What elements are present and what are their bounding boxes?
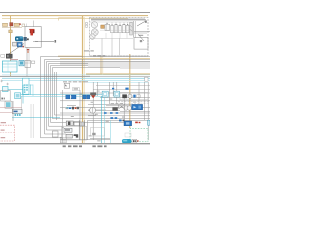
wire tan riser right	[129, 54, 131, 128]
legend text rows	[1, 122, 6, 138]
dashed subsystem boundary	[118, 102, 150, 104]
component teal-border TB1	[102, 91, 108, 97]
bottom-half vertical wires	[63, 82, 149, 140]
component bottom cluster A	[66, 121, 84, 126]
pump blue cylinder P1	[15, 36, 27, 41]
wire tan riser mid	[83, 16, 85, 143]
footer text right	[92, 145, 106, 147]
wire green dashed box	[130, 128, 148, 143]
component C box	[13, 42, 17, 46]
label box L1	[73, 87, 80, 90]
valve blue VB2	[83, 95, 90, 99]
component small blue T2	[19, 60, 24, 65]
text right of block	[139, 35, 144, 36]
wire verticals bottom-center	[79, 120, 87, 140]
wire red left 1	[0, 107, 22, 109]
wire grey band across	[0, 75, 150, 77]
valve hatched column	[130, 23, 133, 36]
pump circle PU3	[90, 34, 95, 39]
node red marks bottom right	[135, 122, 140, 124]
valve triangles bowtie	[119, 105, 125, 109]
text micro labels bottom half	[65, 91, 136, 142]
footer text left	[63, 145, 82, 147]
valve blue big VB4	[132, 104, 143, 109]
box bottom-center enclosure	[62, 126, 87, 140]
valve row V6	[126, 25, 129, 33]
valve assembly top-right VB3	[120, 92, 148, 99]
component band-edge box	[145, 77, 148, 81]
component tan junction	[9, 30, 12, 33]
wire teal verticals bottom-center	[102, 96, 105, 143]
node cross marks	[0, 80, 9, 86]
wire tan horizontal mid-left	[58, 55, 83, 57]
wire valve feed line	[90, 22, 133, 26]
node red blob	[30, 30, 34, 33]
wire top grey bus	[0, 12, 150, 14]
wire tan horizontal mid-right	[60, 58, 150, 60]
wire leader arrow 4	[137, 20, 147, 26]
wire light verticals	[31, 104, 33, 138]
component bottom cluster C	[66, 134, 78, 138]
wire bottom horizontals center	[60, 128, 110, 140]
wire partial mid lines	[93, 86, 150, 90]
component teal box T5	[3, 85, 34, 104]
component red-dark RD1	[90, 92, 96, 98]
upper-left cluster: component M1	[3, 23, 8, 26]
pump circle PU2	[91, 29, 98, 36]
block U1 inner lines	[90, 30, 149, 56]
wire stub right	[134, 31, 150, 33]
component small box with text	[12, 109, 22, 113]
wire cluster verticals	[27, 21, 34, 28]
upper-right block U1 border	[90, 18, 149, 57]
wire teal vertical x110	[109, 121, 111, 144]
component blue box B1	[17, 42, 24, 47]
component small marks row	[2, 24, 25, 28]
valve bank mini cluster	[66, 105, 79, 109]
component bottom cluster B	[64, 128, 72, 132]
valve blue bottom VB5	[124, 121, 132, 126]
wire top tan bus 1	[2, 15, 148, 17]
wire top tan bus 2	[2, 18, 128, 20]
wire tan box top	[59, 18, 84, 21]
node blue dashes row2	[110, 117, 117, 119]
wire grey stub x21	[21, 96, 23, 109]
wire leader label 1	[35, 40, 56, 43]
wire corner bundle left-mid	[41, 57, 151, 138]
node blue bits on wires	[119, 120, 125, 122]
component teal column	[23, 78, 30, 94]
footer grey line	[0, 143, 150, 145]
valve blue VB1	[66, 95, 76, 99]
component teal corner box	[148, 120, 150, 125]
bottom-half horizontal wires	[60, 93, 150, 120]
valve row V4	[118, 26, 121, 33]
wire tan drop from block	[101, 56, 103, 75]
mid horizontal grey wires right side	[60, 62, 150, 68]
sub-box U1a	[134, 34, 148, 49]
component connector group left	[1, 90, 12, 108]
box enclosure E1	[25, 27, 41, 48]
valve row V2	[111, 25, 114, 32]
node blue dots upper	[112, 88, 129, 90]
node dark dot in E1	[27, 38, 29, 40]
wire cyan band 3	[2, 79, 150, 81]
text pink label	[10, 59, 18, 60]
terminal tick row	[91, 18, 146, 21]
gauge circles GC1	[124, 106, 132, 110]
component glyphs left of U1	[85, 22, 88, 27]
component marks T4	[31, 61, 34, 63]
component teal square T6	[15, 85, 105, 99]
node teal dots row	[15, 114, 21, 116]
wire tan horizontal right band	[86, 73, 150, 75]
wire red left 2	[0, 112, 12, 114]
wire leader diagonal	[7, 44, 25, 56]
wire teal bottom left	[12, 117, 60, 119]
wire tan vertical left	[10, 16, 12, 76]
node red dots	[27, 49, 29, 53]
box light bottom-mid	[91, 128, 105, 137]
pump circle PU1	[91, 22, 97, 28]
valve red R1	[29, 29, 34, 35]
valve row V5	[122, 25, 125, 33]
component tan box in U1	[101, 25, 104, 28]
text small above corners	[84, 50, 94, 51]
text row block bottom	[93, 55, 105, 56]
pilot dots	[107, 23, 129, 26]
component small box right of bundle	[52, 131, 58, 137]
component teal box T1	[2, 61, 17, 72]
valve row V3	[114, 25, 117, 33]
component teal-border TB2	[114, 91, 119, 97]
component mini table bottom	[60, 137, 66, 143]
wire pair down from E1	[27, 47, 29, 76]
component K1 red	[10, 23, 13, 26]
valve dark block	[112, 107, 117, 111]
valve row V1	[105, 24, 110, 30]
component K2 tan	[14, 23, 21, 26]
component under-band small	[64, 83, 69, 88]
wire leader top cluster	[33, 41, 38, 43]
component small T3	[25, 60, 30, 67]
label row under band	[63, 80, 88, 83]
wire cyan under band	[88, 81, 148, 83]
wire cyan band 2	[2, 77, 150, 79]
node blue dashes row1	[104, 112, 118, 114]
wire cyan band 1	[2, 74, 150, 76]
wire pair vertical in U1	[134, 21, 136, 38]
wire left vertical	[12, 101, 14, 121]
component dark D1	[1, 54, 12, 58]
cylinder teal bottom	[122, 133, 139, 143]
legend red dashed box	[0, 125, 14, 141]
pump circle bottom PC1	[90, 107, 96, 113]
